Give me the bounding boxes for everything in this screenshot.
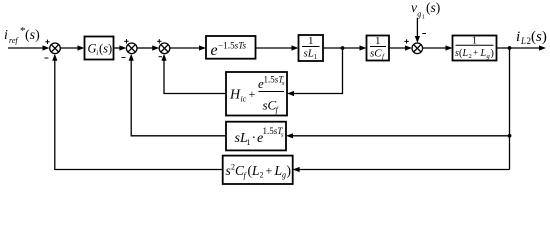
- svg-text:1: 1: [308, 35, 314, 47]
- svg-text:sL: sL: [304, 48, 314, 60]
- block 1/sL1: [299, 35, 324, 61]
- svg-text:s: s: [226, 163, 231, 178]
- wire S4 to plant block: [423, 45, 453, 50]
- svg-text:s: s: [281, 132, 284, 139]
- wire tap B down: [509, 48, 511, 170]
- block s2Cf(L2+Lg): [223, 156, 293, 184]
- svg-text:g: g: [417, 10, 421, 19]
- svg-text:): ): [287, 163, 292, 178]
- wire sL1 block output left and up into S2: [129, 54, 226, 136]
- svg-text:+: +: [473, 48, 478, 58]
- svg-text:L: L: [251, 163, 260, 178]
- S1 minus sign: [45, 57, 49, 59]
- wire tap C left into sL1 block: [286, 133, 510, 138]
- node tap B output junction: [508, 46, 512, 50]
- svg-text:f: f: [276, 106, 280, 115]
- block e^-1.5sTs delay: [206, 36, 256, 59]
- wire delay to 1/sL1: [256, 45, 299, 50]
- svg-text:2: 2: [469, 53, 472, 60]
- S4 minus sign: [422, 33, 426, 35]
- svg-text:1: 1: [247, 138, 251, 147]
- svg-text:L: L: [480, 48, 487, 59]
- node tap C on feedback line: [508, 134, 512, 138]
- S3 plus sign: [157, 39, 161, 43]
- svg-text:L: L: [274, 163, 283, 178]
- svg-text:s: s: [282, 80, 285, 87]
- svg-text:g: g: [282, 171, 286, 180]
- block Gi(s) current controller: [85, 37, 114, 60]
- wire s2Cf output left and up into S1: [52, 54, 223, 170]
- svg-text:L: L: [520, 36, 526, 46]
- wire S1 to Gi: [60, 45, 84, 50]
- svg-text:sC: sC: [370, 48, 382, 60]
- svg-text:ref: ref: [9, 36, 19, 45]
- svg-text:1: 1: [375, 35, 381, 47]
- svg-text:1: 1: [422, 15, 425, 21]
- S3 minus sign: [159, 56, 163, 58]
- wire tap A down and left into Hic block: [287, 48, 343, 96]
- wire Hic output left and up into S3: [161, 54, 226, 94]
- svg-text:L: L: [462, 48, 469, 59]
- wire bottom feedback left into s2Cf block: [293, 167, 510, 172]
- svg-text:G: G: [88, 42, 97, 56]
- summing junction S2: [126, 43, 137, 54]
- svg-text:v: v: [411, 0, 417, 15]
- svg-text:i: i: [4, 28, 8, 43]
- summing junction S4: [412, 43, 423, 54]
- svg-text:1: 1: [314, 53, 318, 61]
- wire 1/sCf to S4: [389, 45, 412, 50]
- svg-text:ic: ic: [241, 95, 247, 104]
- block Hic + e^1.5sTs/sCf: [226, 72, 287, 116]
- wire plant to output: [497, 45, 547, 50]
- label vg1(s) grid voltage: [411, 0, 440, 21]
- svg-text:+: +: [249, 87, 256, 101]
- svg-text:(s): (s): [99, 42, 112, 56]
- S4 plus sign: [404, 39, 408, 43]
- summing junction S1: [50, 43, 61, 54]
- svg-text:(s): (s): [25, 28, 40, 43]
- node tap A after 1/sL1: [341, 46, 345, 50]
- svg-text:·: ·: [252, 131, 257, 146]
- label iL2(s) output signal: [516, 29, 547, 46]
- wire vg1 drop into S4: [415, 18, 420, 43]
- S2 minus sign: [122, 57, 126, 59]
- svg-text:): ): [491, 48, 494, 59]
- block 1/(s(L2+Lg)): [453, 36, 497, 61]
- svg-text:e: e: [211, 42, 218, 59]
- svg-text:H: H: [229, 88, 241, 103]
- wire S3 to delay block: [170, 45, 206, 50]
- S1 plus sign: [45, 40, 49, 44]
- S2 plus sign: [124, 39, 128, 43]
- svg-text:(s): (s): [426, 0, 440, 15]
- wire Gi to S2: [114, 45, 127, 50]
- label i_ref*(s) input signal: [4, 25, 40, 45]
- wire S2 to S3: [137, 45, 159, 50]
- summing junction S3: [159, 43, 170, 54]
- svg-text:+: +: [266, 164, 273, 178]
- svg-text:sC: sC: [263, 98, 277, 113]
- svg-text:2: 2: [260, 171, 264, 180]
- block 1/sCf: [367, 35, 390, 61]
- wire input to S1: [8, 45, 50, 50]
- svg-text:−1.5sTs: −1.5sTs: [218, 41, 247, 51]
- svg-text:i: i: [516, 29, 520, 45]
- wire 1/sL1 to 1/sCf: [323, 45, 367, 50]
- block sL1 e^1.5sTs: [226, 122, 286, 151]
- svg-text:(s): (s): [531, 29, 547, 45]
